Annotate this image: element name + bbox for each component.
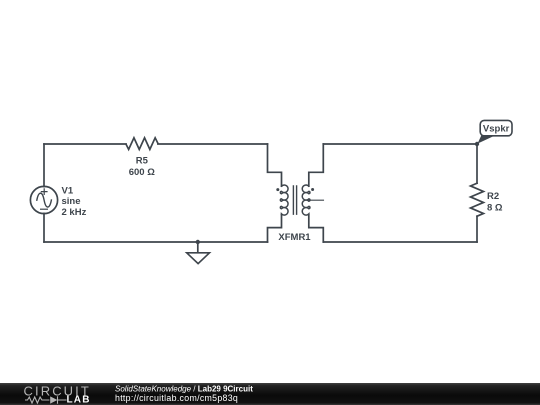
svg-text:V1: V1 [62, 186, 74, 197]
wire Vspkr node to R2 [476, 144, 478, 183]
svg-text:sine: sine [62, 196, 81, 207]
resistor R2 [471, 183, 484, 216]
svg-text:R2: R2 [487, 191, 499, 202]
svg-text:600 Ω: 600 Ω [129, 167, 155, 178]
wire R5 to XFMR1 primary top [158, 143, 268, 145]
XFMR1 secondary winding [302, 185, 310, 215]
svg-text:XFMR1: XFMR1 [278, 232, 311, 243]
footer bar [0, 383, 540, 405]
XFMR1 primary phase dot [276, 188, 279, 191]
XFMR1 primary lead top [268, 144, 282, 186]
XFMR1 secondary center tap stub [309, 199, 324, 201]
wire top-left to R5 [44, 143, 126, 145]
resistor R5 [126, 138, 158, 150]
wire XFMR1 secondary top to Vspkr node [323, 143, 477, 145]
svg-text:2 kHz: 2 kHz [62, 207, 87, 218]
node Vspkr flag [475, 120, 512, 146]
svg-text:http://circuitlab.com/cm5p83q: http://circuitlab.com/cm5p83q [115, 393, 238, 403]
wire XFMR1 secondary bottom to R2 [323, 241, 477, 243]
XFMR1 core [293, 186, 296, 214]
XFMR1 secondary lead top [309, 144, 324, 186]
svg-text:R5: R5 [136, 156, 149, 167]
voltage source V1 [30, 186, 57, 213]
CircuitLab logo [24, 383, 91, 405]
wire R2 to bottom-right [476, 216, 478, 242]
XFMR1 secondary lead bottom [309, 214, 324, 242]
svg-text:Vspkr: Vspkr [483, 124, 510, 135]
wire bottom-left to XFMR1 (through ground node) [44, 241, 268, 243]
XFMR1 secondary phase dot [311, 188, 314, 191]
transformer XFMR1 [268, 144, 324, 242]
wire V1 top lead [43, 144, 45, 187]
XFMR1 primary lead bottom [268, 214, 282, 242]
wire V1 bottom lead [43, 213, 45, 242]
ground [187, 240, 210, 264]
XFMR1 primary winding [280, 185, 288, 215]
svg-text:LAB: LAB [67, 395, 91, 405]
svg-text:8 Ω: 8 Ω [487, 202, 503, 213]
